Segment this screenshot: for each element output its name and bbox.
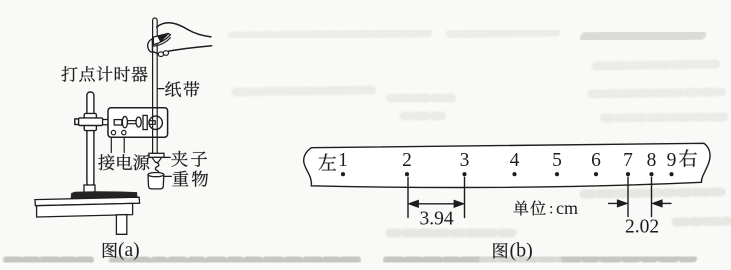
- svg-text:4: 4: [510, 150, 520, 171]
- label 接电源: [98, 154, 149, 170]
- weight cup rim: [148, 173, 164, 177]
- spool inner bar: [149, 121, 155, 125]
- leader to 夹子: [164, 156, 170, 158]
- hand bottom contour left stub: [153, 51, 159, 53]
- clip bar: [149, 153, 164, 157]
- extension line dot3: [464, 177, 466, 217]
- svg-text:6: 6: [591, 150, 601, 171]
- thumb dark tip: [158, 35, 168, 42]
- svg-text:cm: cm: [556, 198, 578, 218]
- label 夹子: [171, 151, 206, 167]
- shaft disc 2: [136, 117, 141, 127]
- svg-text:7: 7: [623, 150, 633, 171]
- horizontal support rod: [103, 118, 114, 125]
- label 打点计时器: [61, 66, 147, 82]
- tape point numbers: [338, 150, 676, 171]
- bleed-through darker patch top right: [586, 34, 700, 38]
- terminal 1: [111, 130, 115, 134]
- svg-text:2: 2: [402, 150, 412, 171]
- svg-text::: :: [549, 200, 553, 217]
- table leg: [116, 215, 126, 235]
- paper tape (vertical): [153, 18, 158, 153]
- s-hook: [155, 163, 158, 173]
- weight cup: [148, 175, 164, 189]
- wire 2: [123, 138, 125, 153]
- thumb lower line: [153, 38, 170, 47]
- fingertip 2: [163, 51, 168, 56]
- svg-text:5: 5: [552, 150, 562, 171]
- wire 1: [110, 138, 112, 153]
- label 左: [318, 154, 336, 171]
- hand bottom/finger contour: [169, 46, 212, 51]
- caption 图(b): [493, 243, 507, 258]
- svg-text:1: 1: [338, 150, 348, 171]
- bleed-through right mid rows: [390, 192, 728, 233]
- arrow into line8: [653, 200, 671, 206]
- label 纸带: [165, 81, 199, 97]
- caption 图(a): [103, 243, 117, 258]
- bleed-through bottom full row: [8, 258, 700, 261]
- svg-text:9: 9: [667, 150, 677, 171]
- spool wheel: [149, 116, 162, 129]
- shaft coupler: [114, 120, 122, 125]
- svg-text:2.02: 2.02: [625, 216, 659, 237]
- label 单位:cm: [513, 201, 545, 216]
- tape dots: [341, 172, 674, 176]
- timer box: [108, 108, 168, 138]
- leader to 重物: [165, 175, 172, 177]
- extension line dot8: [651, 177, 653, 216]
- table top slab: [35, 197, 140, 206]
- svg-text:8: 8: [647, 150, 657, 171]
- table apron: [37, 203, 133, 217]
- double arrow 3.94: [409, 201, 463, 207]
- svg-text:3: 3: [460, 150, 470, 171]
- fingertip 1: [158, 52, 163, 57]
- extension line dot2: [407, 177, 409, 217]
- extension line dot7: [627, 177, 629, 216]
- index finger flap left of tape: [148, 39, 153, 53]
- bleed-through text row top: [232, 32, 560, 36]
- svg-text:(a): (a): [118, 240, 140, 261]
- label 重物: [172, 171, 208, 187]
- shaft disc 1: [122, 116, 127, 127]
- svg-text:3.94: 3.94: [419, 208, 453, 229]
- arrow into line7: [609, 200, 627, 206]
- stand foot: [84, 185, 95, 192]
- stand rod: [87, 92, 94, 186]
- terminal 2: [122, 130, 126, 134]
- base plate (dark): [71, 192, 137, 199]
- hand back/top contour: [157, 23, 211, 37]
- svg-text:(b): (b): [510, 240, 533, 262]
- shaft: [128, 121, 137, 124]
- vibrator plate: [143, 115, 147, 129]
- thumb wedge: [153, 33, 170, 44]
- bleed-through row 2: [236, 64, 726, 118]
- leader to 纸带: [158, 88, 164, 90]
- clip funnel: [152, 157, 162, 162]
- cross clamp: [75, 113, 103, 130]
- tape strip outline: [304, 143, 710, 187]
- label 右: [679, 149, 697, 166]
